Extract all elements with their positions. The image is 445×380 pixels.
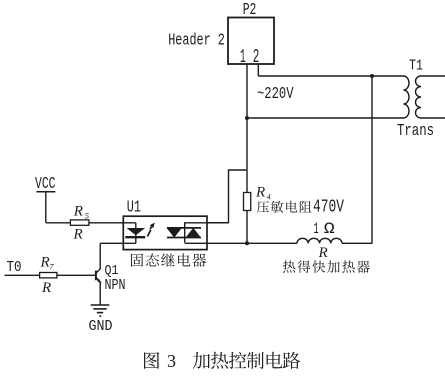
label R5 (73, 204, 89, 221)
resistor R5 body (70, 220, 89, 225)
label R7 (40, 255, 55, 272)
svg-text:T1: T1 (409, 59, 423, 75)
wire secondary bottom (421, 117, 445, 119)
label VCC (35, 174, 56, 193)
wire Q1 emitter drop (99, 282, 101, 305)
svg-text:T0: T0 (7, 260, 22, 276)
wire R7 to Q1 base (57, 274, 95, 276)
heater coil R (297, 238, 342, 243)
label 固态继电器 (131, 253, 206, 267)
ground bar 1 (91, 304, 110, 306)
svg-text:R: R (318, 245, 328, 261)
svg-text:Trans: Trans (397, 121, 434, 140)
label R4 (255, 185, 272, 202)
LED cathode bar (125, 236, 145, 238)
ground bar 3 (97, 312, 103, 314)
svg-text:R: R (73, 227, 83, 243)
svg-text:Ω: Ω (324, 220, 335, 238)
label R7 value (41, 280, 51, 296)
svg-text:7: 7 (49, 262, 54, 272)
label 1 ohm (314, 220, 335, 238)
label Q1 (105, 263, 119, 279)
label R heater (318, 245, 328, 261)
wire pin1 vertical (246, 64, 248, 244)
Q1 collector stroke (96, 268, 101, 273)
wire Q1 collector to LED (100, 242, 136, 244)
Q1 emitter stroke (96, 278, 101, 283)
svg-text:5: 5 (85, 211, 89, 221)
node junction pin1-bottom (245, 116, 249, 120)
svg-text:Header 2: Header 2 (168, 31, 225, 50)
label P2 (243, 0, 257, 19)
relay U1 box (123, 216, 207, 249)
svg-text:R: R (73, 204, 83, 220)
opto arrow (148, 223, 155, 237)
wire pin2 stub (257, 64, 259, 76)
Q1 emitter arrow (97, 279, 102, 284)
label Header 2 (168, 31, 225, 50)
triac top rail (167, 227, 201, 229)
svg-text:R: R (40, 255, 50, 271)
pin number 1 (240, 46, 246, 68)
wire heater to right vertical (342, 242, 372, 244)
LED vertical lead (135, 223, 137, 244)
caption 3 (167, 351, 176, 371)
svg-text:R: R (255, 185, 265, 201)
node junction top-right (370, 74, 374, 78)
label 470V line (257, 198, 344, 218)
svg-text:Q1: Q1 (105, 263, 119, 279)
label ~220V (257, 85, 294, 104)
LED triangle (127, 228, 146, 235)
wire 220V bottom horizontal (246, 117, 403, 119)
wire VCC down (45, 192, 47, 223)
caption 图 (144, 352, 159, 369)
VCC terminal bar (36, 191, 55, 193)
transformer T1 primary coil (404, 76, 410, 118)
label R5 value (73, 227, 83, 243)
transistor Q1 base bar (95, 271, 97, 281)
varistor R4 body (244, 193, 251, 211)
connector P2 box (228, 18, 274, 65)
label GND (89, 318, 113, 335)
triac frame (185, 223, 229, 243)
wire Q1 collector riser (99, 243, 101, 268)
svg-text:1: 1 (314, 220, 319, 238)
ground bar 2 (93, 308, 106, 310)
transformer T1 secondary coil (416, 76, 422, 118)
svg-text:U1: U1 (127, 198, 141, 217)
triac right triangle (186, 228, 202, 238)
wire 220V top horizontal (258, 75, 403, 77)
wire U1 output to 220V (207, 170, 246, 223)
label T1 (409, 59, 423, 75)
svg-text:P2: P2 (243, 0, 257, 19)
wire VCC input into box (89, 222, 136, 224)
node junction R4-bottom (245, 241, 249, 245)
svg-text:470V: 470V (313, 198, 344, 218)
label U1 (127, 198, 141, 217)
svg-text:3: 3 (167, 351, 176, 371)
label T0 (7, 260, 22, 276)
svg-text:1: 1 (240, 46, 246, 68)
label NPN (105, 278, 126, 294)
wire secondary top (421, 75, 445, 77)
svg-text:VCC: VCC (35, 174, 56, 193)
wire T0 to R7 (5, 274, 40, 276)
svg-text:GND: GND (89, 318, 113, 335)
caption 加热控制电路 (193, 352, 300, 369)
svg-text:R: R (41, 280, 51, 296)
label Trans (397, 121, 434, 140)
svg-text:~220V: ~220V (257, 85, 294, 104)
label 热得快加热器 (283, 260, 370, 273)
triac left triangle (166, 228, 182, 238)
wire relay output bottom (185, 242, 297, 244)
resistor R7 body (40, 273, 57, 278)
ground bar 4 (99, 315, 101, 317)
svg-text:NPN: NPN (105, 278, 126, 294)
pin number 2 (253, 46, 260, 68)
wire VCC to R5 (46, 222, 71, 224)
wire right vertical (371, 76, 373, 244)
triac bottom rail (167, 237, 201, 239)
